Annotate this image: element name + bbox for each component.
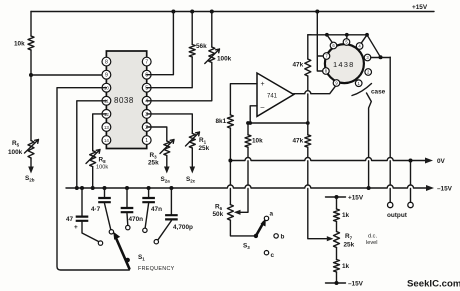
svg-text:25k: 25k — [199, 145, 210, 152]
IC U1 8038 — [106, 51, 146, 149]
resistor 8k1 — [216, 115, 234, 128]
wire -input — [250, 106, 257, 123]
arrow to S2c — [186, 148, 196, 184]
svg-text:47: 47 — [66, 216, 74, 223]
svg-text:8: 8 — [105, 60, 108, 66]
switch S1 wiper — [113, 232, 174, 272]
pin 1 1438 — [355, 80, 362, 87]
potentiometer 100k — [147, 12, 232, 101]
pin 13 8038 — [102, 123, 111, 132]
pin 4 8038 — [142, 96, 151, 105]
svg-text:2: 2 — [145, 125, 148, 131]
svg-text:4,700p: 4,700p — [173, 224, 193, 231]
capacitor 47n — [142, 186, 162, 233]
svg-text:47k: 47k — [293, 62, 304, 69]
potentiometer R6 50k — [213, 161, 234, 221]
resistor 1k upper — [334, 197, 350, 222]
svg-text:741: 741 — [267, 94, 278, 100]
svg-text:470n: 470n — [129, 216, 144, 223]
svg-text:0V: 0V — [437, 158, 446, 165]
svg-text:100k: 100k — [96, 165, 108, 171]
svg-text:level: level — [366, 240, 378, 246]
svg-text:14: 14 — [104, 138, 109, 143]
svg-text:47n: 47n — [151, 206, 162, 213]
svg-text:a: a — [270, 211, 274, 218]
arrow to S2a — [161, 156, 171, 184]
pin 2 8038 — [142, 123, 151, 132]
svg-text:FREQUENCY: FREQUENCY — [138, 266, 175, 272]
resistor 47k feedback — [293, 35, 312, 123]
+15V supply rail — [31, 4, 434, 14]
wire R6 to S3 — [230, 220, 256, 236]
capacitor 47 — [66, 186, 103, 245]
potentiometer R8 100k — [86, 150, 108, 171]
resistor 10k pull-up — [14, 12, 34, 76]
resistor 56k — [147, 12, 207, 88]
svg-text:+: + — [74, 224, 78, 231]
resistor 1k lower — [334, 248, 350, 273]
pin 3 8038 — [142, 110, 151, 119]
wire pin6 to +15V — [147, 12, 174, 75]
case arc — [352, 84, 386, 189]
svg-text:9: 9 — [105, 73, 108, 79]
pin 5 1438 — [343, 39, 350, 46]
wire 1438 output node — [308, 33, 381, 57]
wire pin11 — [77, 101, 107, 188]
switch S3 — [243, 211, 285, 260]
svg-text:5: 5 — [145, 86, 148, 92]
pin 7 1438 — [323, 53, 330, 60]
potentiometer R1 25k — [186, 132, 210, 152]
capacitor 4.7 — [91, 186, 114, 234]
svg-text:13: 13 — [104, 125, 109, 130]
pin 6 8038 — [142, 70, 151, 79]
svg-text:7: 7 — [145, 60, 148, 66]
pin 2 1438 — [365, 69, 372, 76]
svg-text:–: – — [261, 105, 265, 112]
svg-text:–15V: –15V — [437, 186, 453, 193]
svg-text:case: case — [371, 89, 386, 96]
pin 14 8038 — [102, 136, 111, 145]
wire pin2 to R3 — [147, 127, 167, 141]
pin 1 8038 — [142, 136, 151, 145]
pin 7 8038 — [142, 57, 151, 66]
node inverting input — [248, 122, 308, 124]
potentiometer R5 100k — [8, 75, 39, 158]
pin 5 8038 — [142, 83, 151, 92]
0V rail — [228, 158, 445, 166]
resistor 47k to R7 — [293, 123, 334, 241]
pin 9 8038 — [102, 70, 111, 79]
svg-text:+15V: +15V — [412, 4, 428, 11]
pin 6 1438 — [330, 42, 337, 49]
svg-text:+15V: +15V — [348, 195, 364, 202]
svg-text:c: c — [271, 252, 275, 259]
svg-text:output: output — [387, 212, 408, 219]
wire pin12 to R8 — [93, 114, 107, 151]
svg-text:SeekIC.com: SeekIC.com — [407, 279, 460, 290]
svg-text:4: 4 — [145, 99, 148, 105]
svg-text:100k: 100k — [8, 149, 23, 156]
pin 9 1438 — [333, 80, 340, 87]
pin 8 8038 — [102, 57, 111, 66]
svg-text:1438: 1438 — [333, 60, 355, 69]
wire to output terminal 2 — [410, 161, 412, 203]
svg-text:8038: 8038 — [114, 96, 134, 105]
capacitor 470n — [121, 186, 143, 230]
wire pin10 to S1 wiper — [57, 88, 129, 270]
svg-text:25k: 25k — [344, 242, 355, 249]
op-amp U2 741 — [257, 73, 294, 116]
svg-text:56k: 56k — [196, 43, 207, 50]
svg-text:3: 3 — [145, 112, 148, 118]
wire to output terminal 1 — [389, 57, 391, 202]
svg-text:25k: 25k — [148, 160, 159, 167]
pin 3 1438 — [364, 54, 371, 61]
wire pin3 to R1 — [147, 114, 193, 133]
pin 11 8038 — [102, 96, 111, 105]
booster U3 1438 — [325, 44, 364, 83]
output terminal 2 — [408, 202, 413, 207]
node pin9 junction — [29, 73, 33, 77]
output terminal 1 — [388, 202, 393, 207]
wire 741 output to pin9 1438 — [294, 86, 336, 93]
potentiometer R7 25k — [334, 222, 378, 249]
pin 10 8038 — [102, 83, 111, 92]
svg-text:+: + — [261, 81, 265, 88]
svg-text:10k: 10k — [14, 41, 25, 48]
-15V rail / bottom bus — [66, 185, 428, 188]
svg-text:6: 6 — [145, 73, 148, 79]
wire pin9 — [31, 74, 106, 76]
svg-text:1: 1 — [145, 138, 148, 144]
wire pin3 to output — [371, 57, 390, 59]
wire +input — [230, 84, 257, 115]
resistor 10k input — [245, 123, 263, 147]
pin 8 1438 — [323, 68, 330, 75]
svg-text:1k: 1k — [342, 212, 350, 219]
wire +15V to pins 7,8 — [317, 12, 323, 72]
capacitor 4700p — [154, 186, 193, 244]
svg-text:100k: 100k — [217, 56, 232, 63]
-15V stub — [326, 272, 364, 288]
svg-text:d.c.: d.c. — [368, 234, 377, 240]
pin 4 1438 — [356, 43, 363, 50]
svg-text:50k: 50k — [213, 211, 224, 218]
svg-text:b: b — [281, 234, 285, 241]
svg-text:–15V: –15V — [348, 281, 364, 288]
svg-text:1k: 1k — [342, 263, 350, 270]
svg-text:4·7: 4·7 — [91, 206, 101, 213]
pin 12 8038 — [102, 110, 111, 119]
wire 10k to R6 wiper — [234, 147, 248, 215]
svg-text:8k1: 8k1 — [216, 118, 227, 125]
+15V stub — [326, 195, 364, 202]
arrow to S2b — [25, 158, 35, 183]
potentiometer R3 25k — [148, 140, 174, 167]
svg-text:47k: 47k — [293, 138, 304, 145]
svg-text:10k: 10k — [252, 138, 263, 145]
